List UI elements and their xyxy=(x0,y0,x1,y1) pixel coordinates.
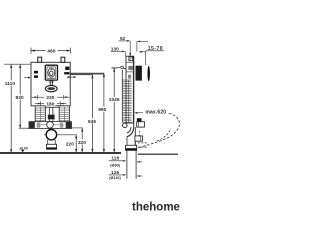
drain pipe between legs xyxy=(48,107,50,121)
dim max.620 xyxy=(134,109,166,115)
floor line left xyxy=(0,152,121,154)
top extension line left xyxy=(4,63,31,65)
svg-text:±0.00: ±0.00 xyxy=(19,146,28,150)
svg-text:230: 230 xyxy=(46,95,54,101)
left leg xyxy=(35,106,45,122)
svg-text:180: 180 xyxy=(46,102,54,108)
svg-text:1045: 1045 xyxy=(109,97,120,103)
dim 130 xyxy=(111,47,125,53)
dim 830 line xyxy=(19,65,21,129)
wall lower black block xyxy=(137,118,142,123)
supply extension line 990 xyxy=(71,73,105,75)
svg-text:220: 220 xyxy=(66,141,74,147)
drain dark marker xyxy=(48,115,55,120)
side frame internals xyxy=(126,61,134,63)
lower connector rect xyxy=(135,136,143,141)
adjust arrow symbol right xyxy=(67,76,76,78)
foot bar center circle xyxy=(47,122,54,129)
dim 990 xyxy=(98,73,108,152)
svg-text:1110: 1110 xyxy=(5,81,16,87)
bowl connection dashes xyxy=(138,142,148,144)
drain flange xyxy=(47,144,57,149)
foot bar gray block right xyxy=(60,122,64,127)
dim 230 xyxy=(32,95,70,101)
outlet elbow xyxy=(133,123,135,127)
side drain pipe xyxy=(126,137,128,146)
GROHE logo oval xyxy=(45,85,57,91)
extension line push rod xyxy=(129,41,131,56)
side supply line xyxy=(112,67,118,69)
water connection dash right lower xyxy=(64,72,69,74)
side frame back line xyxy=(121,70,123,123)
svg-text:(Ø90): (Ø90) xyxy=(110,164,120,168)
foot bar end cap right xyxy=(66,122,72,128)
svg-text:990: 990 xyxy=(98,107,106,113)
dim 1045 xyxy=(109,68,120,153)
supply pipe ring xyxy=(123,123,128,128)
dim 52 xyxy=(119,36,148,42)
right leg xyxy=(59,106,69,122)
svg-text:(Ø110): (Ø110) xyxy=(109,176,121,180)
frame hanger tab left xyxy=(38,57,42,62)
svg-text:max.620: max.620 xyxy=(145,109,166,115)
side frame bracket xyxy=(129,57,133,61)
dim 15-70 xyxy=(139,46,164,53)
dim 460 line xyxy=(31,50,46,52)
svg-text:830: 830 xyxy=(16,95,24,101)
water connection dash left lower xyxy=(34,75,38,78)
svg-text:945: 945 xyxy=(88,119,96,125)
foot bar gray block left xyxy=(37,122,41,127)
supply extension line 945 xyxy=(71,74,93,76)
drain elbow circle xyxy=(46,130,56,140)
inspection oval xyxy=(48,68,55,77)
svg-text:thehome: thehome xyxy=(132,202,180,214)
extension line wall face xyxy=(136,41,138,51)
outlet connector rect xyxy=(137,122,145,127)
level marker triangle xyxy=(21,150,24,153)
push rod zigzag xyxy=(130,56,131,61)
below floor pipe xyxy=(126,150,128,179)
foot bar xyxy=(29,122,72,129)
830 extension line at foot xyxy=(19,127,31,129)
supply nub side view xyxy=(126,67,129,71)
angle valve symbol xyxy=(118,66,121,69)
water connection dash left upper xyxy=(34,71,38,74)
side frame ribs xyxy=(122,80,131,122)
svg-text:460: 460 xyxy=(47,49,55,55)
side frame profile xyxy=(126,56,134,123)
drain pipe below xyxy=(47,140,49,145)
extension line finished wall xyxy=(145,51,147,66)
frame body outline xyxy=(31,62,70,106)
flush plate side profile xyxy=(147,66,150,81)
foot bar mid line xyxy=(41,124,47,126)
wall section xyxy=(136,66,142,81)
svg-text:320: 320 xyxy=(78,140,86,146)
WC bowl inner dashed xyxy=(157,129,171,141)
foot bar end cap left xyxy=(29,122,35,128)
adjust arrow symbol left xyxy=(24,77,30,79)
inspection box outer xyxy=(45,65,57,80)
floor line right xyxy=(138,153,178,155)
side drain flange xyxy=(126,145,137,150)
WC bowl outline dashed xyxy=(139,114,180,148)
frame hanger tab right xyxy=(61,57,65,62)
extension line frame back xyxy=(125,51,127,56)
dim 320 xyxy=(71,128,86,153)
dim 180 xyxy=(35,101,67,108)
water connection dash right upper xyxy=(65,67,69,70)
flush valve detail xyxy=(50,71,53,76)
dim 1110 line xyxy=(10,65,12,153)
logo stem xyxy=(50,81,52,85)
dim 830 text xyxy=(15,95,24,100)
dim 126 xyxy=(109,170,143,177)
dim 945 xyxy=(87,75,97,153)
inspection box inner xyxy=(47,67,56,79)
dim 116 xyxy=(109,156,143,163)
frame bottom edge second line xyxy=(45,106,59,108)
dim 1110 text xyxy=(5,81,16,86)
dim 220 xyxy=(57,135,77,153)
